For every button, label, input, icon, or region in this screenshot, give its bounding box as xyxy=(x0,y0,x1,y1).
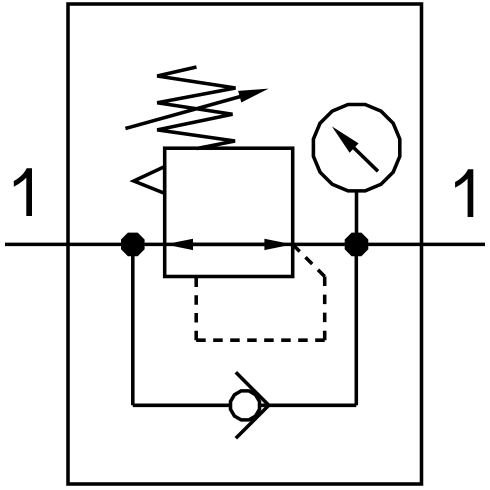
spring zigzag xyxy=(157,67,235,149)
pilot line dashed left vertical xyxy=(194,278,198,341)
port label 1 left xyxy=(14,168,32,216)
relief vent triangle xyxy=(134,167,165,194)
gauge needle shaft xyxy=(352,146,378,171)
port label 1 right xyxy=(455,169,473,217)
adjustment arrowhead xyxy=(238,89,269,103)
check valve circle xyxy=(231,391,260,420)
wire: main flow line 1-1 xyxy=(5,243,485,247)
flow arrowhead left xyxy=(165,239,193,250)
pilot line dashed right vertical xyxy=(323,277,327,341)
adjustment arrow shaft xyxy=(125,97,240,129)
check valve seat xyxy=(236,372,269,438)
flow arrow shaft inside valve xyxy=(189,243,268,247)
flow arrowhead right xyxy=(264,239,292,250)
wire: bypass bottom horizontal xyxy=(133,404,356,408)
border frame xyxy=(68,4,422,484)
node: right junction dot xyxy=(345,233,368,256)
wire: bypass right vertical xyxy=(355,244,359,405)
gauge needle arrowhead xyxy=(332,126,359,152)
regulator valve body box xyxy=(165,148,293,276)
pilot line dashed diagonal xyxy=(293,245,325,277)
pressure gauge circle xyxy=(313,105,399,191)
node: left junction dot xyxy=(122,233,145,256)
pilot line dashed bottom horizontal xyxy=(196,338,325,342)
wire: bypass left vertical xyxy=(131,244,135,405)
wire: gauge stem xyxy=(355,191,359,245)
